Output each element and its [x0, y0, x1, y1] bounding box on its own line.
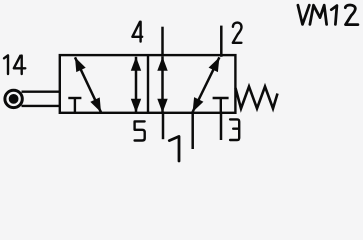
position divider	[147, 55, 149, 113]
flow path arrow 2-3 (left box vertical)	[131, 57, 141, 113]
actuator plunger top line	[22, 90, 62, 92]
pilot actuator push-button circle (port 14)	[5, 90, 22, 107]
port label 4	[132, 22, 142, 42]
pilot port label 14	[4, 55, 25, 74]
actuator plunger bottom line	[22, 105, 62, 107]
flow path arrow 1-4 (left box diagonal)	[75, 57, 101, 112]
blocked port symbol T (right box, port 3 closed)	[213, 98, 229, 113]
port 2 line	[220, 26, 223, 57]
title text VM12 - 2	[345, 5, 358, 25]
port label 2	[233, 23, 242, 43]
port 5 line	[162, 112, 165, 140]
port 3 line	[220, 112, 223, 141]
port 1 line	[191, 112, 194, 150]
title text VM12 - 1	[331, 6, 337, 25]
title text VM12 - M	[310, 5, 327, 24]
port 4 line	[161, 27, 164, 57]
return spring	[236, 87, 278, 109]
flow path arrow 1-2 (right box diagonal)	[193, 57, 220, 112]
blocked port symbol T (left box, port 5 closed)	[68, 98, 81, 113]
valve body: two-position box	[60, 55, 236, 113]
port label 1	[169, 136, 179, 161]
port label 5	[135, 121, 145, 140]
port label 3	[230, 119, 239, 140]
flow path arrow 4-5 (right box vertical)	[157, 57, 167, 113]
title text VM12 - V	[298, 5, 309, 24]
